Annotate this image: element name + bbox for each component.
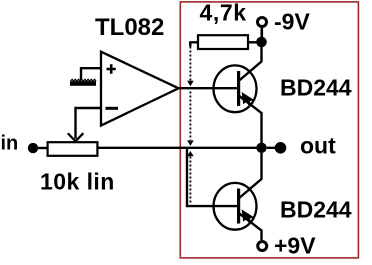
svg-text:in: in <box>1 133 19 155</box>
svg-text:+9V: +9V <box>274 233 316 259</box>
dotted arrow: Q1 base wire to out wire <box>187 92 194 146</box>
transistor Q1 circle <box>214 65 257 112</box>
wire: in dot to pot <box>38 147 48 149</box>
Q1 collector diagonal <box>239 62 262 82</box>
dotted arrow: resistor to Q1 base wire <box>187 47 194 87</box>
svg-text:10k lin: 10k lin <box>40 169 115 195</box>
+9V terminal circle <box>258 242 267 251</box>
Q1 emitter arrowhead (PNP) <box>242 92 255 105</box>
svg-text:BD244: BD244 <box>280 197 352 223</box>
pot wiper arrowhead <box>68 133 84 141</box>
wire: non-inverting input to ground <box>81 68 100 80</box>
svg-text:4,7k: 4,7k <box>200 0 247 26</box>
wire: inverting input to pot wiper <box>76 108 101 139</box>
wire: pot to out node <box>97 147 257 149</box>
wire: resistor left end with corner <box>190 42 198 46</box>
Q2 emitter diagonal <box>239 213 262 240</box>
Q1 emitter diagonal <box>239 96 262 144</box>
wire: junction to out dot <box>267 147 275 149</box>
op-amp minus input marking <box>106 107 119 110</box>
wire: -9V terminal to junction <box>260 27 263 37</box>
Q1 base bar <box>237 71 240 106</box>
resistor R1 body <box>198 35 248 49</box>
op-amp U1 triangle <box>101 52 179 126</box>
Q2 base bar <box>237 189 240 224</box>
junction at -9V node <box>256 37 267 48</box>
wire: op-amp output to Q1 base <box>179 87 238 89</box>
wire: resistor right end to -9V node <box>248 41 260 43</box>
svg-text:out: out <box>300 133 336 159</box>
Q2 collector diagonal <box>239 179 262 199</box>
input terminal dot <box>28 143 38 153</box>
red module border <box>180 2 358 258</box>
out terminal dot <box>275 142 287 154</box>
Q2 emitter arrowhead (PNP) <box>242 209 255 222</box>
transistor Q2 circle <box>214 183 257 230</box>
ground <box>70 79 96 86</box>
wire: out wire down to Q2 base <box>187 148 237 206</box>
svg-text:-9V: -9V <box>274 9 310 35</box>
out junction <box>256 143 266 153</box>
wire: -9V node down to Q1 collector <box>260 46 262 62</box>
potentiometer R2 body <box>48 142 98 156</box>
dotted arrow: Q2 base wire to out wire <box>187 151 194 203</box>
wire: out node down to Q2 collector <box>260 153 262 180</box>
-9V terminal circle <box>258 18 267 27</box>
op-amp plus input marking <box>107 64 116 73</box>
svg-text:TL082: TL082 <box>95 14 164 41</box>
svg-text:BD244: BD244 <box>280 75 352 101</box>
